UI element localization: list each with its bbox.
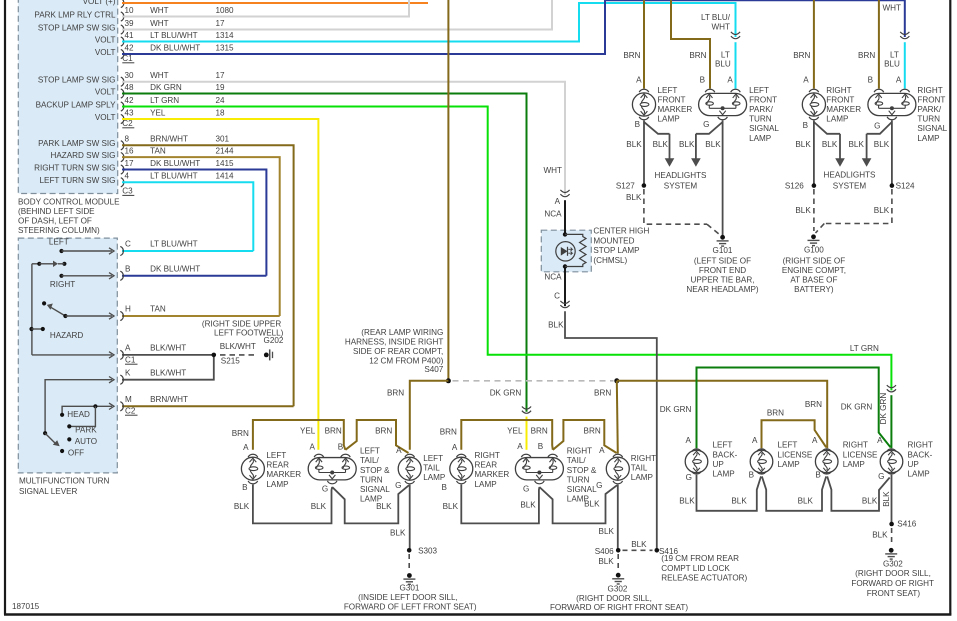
svg-text:VOLT: VOLT xyxy=(95,113,116,122)
svg-text:RIGHT: RIGHT xyxy=(567,447,592,456)
svg-text:VOLT: VOLT xyxy=(95,35,116,44)
svg-text:16: 16 xyxy=(125,147,135,156)
svg-text:SIGNAL: SIGNAL xyxy=(360,485,390,494)
svg-text:LAMP: LAMP xyxy=(266,480,288,489)
svg-text:(RIGHT SIDE UPPER: (RIGHT SIDE UPPER xyxy=(202,320,281,329)
svg-text:LAMP: LAMP xyxy=(475,480,497,489)
svg-text:FRONT END: FRONT END xyxy=(699,266,746,275)
svg-text:UP: UP xyxy=(713,460,724,469)
svg-text:S406: S406 xyxy=(595,547,614,556)
svg-text:S416: S416 xyxy=(897,520,916,529)
svg-text:C2: C2 xyxy=(125,406,136,415)
svg-text:FORWARD OF RIGHT: FORWARD OF RIGHT xyxy=(851,579,934,588)
svg-text:OFF: OFF xyxy=(68,448,84,457)
svg-text:H: H xyxy=(125,305,131,314)
svg-text:RIGHT: RIGHT xyxy=(631,454,656,463)
svg-text:1080: 1080 xyxy=(216,6,235,15)
svg-text:A: A xyxy=(125,344,131,353)
svg-text:TAIL/: TAIL/ xyxy=(567,456,587,465)
svg-text:NEAR HEADLAMP): NEAR HEADLAMP) xyxy=(686,285,759,294)
svg-text:COMPT LID LOCK: COMPT LID LOCK xyxy=(661,564,730,573)
svg-text:FRONT: FRONT xyxy=(917,95,945,104)
svg-text:(LEFT SIDE OF: (LEFT SIDE OF xyxy=(694,256,751,265)
svg-text:A: A xyxy=(727,76,733,85)
svg-text:43: 43 xyxy=(125,108,135,117)
svg-text:TAN: TAN xyxy=(150,305,166,314)
svg-text:SIGNAL LEVER: SIGNAL LEVER xyxy=(19,487,78,496)
svg-text:S215: S215 xyxy=(221,356,240,365)
svg-text:LT BLU/WHT: LT BLU/WHT xyxy=(150,172,198,181)
svg-text:YEL: YEL xyxy=(507,427,523,436)
svg-text:BRN/WHT: BRN/WHT xyxy=(150,395,188,404)
svg-text:TURN: TURN xyxy=(567,475,590,484)
svg-text:LEFT: LEFT xyxy=(713,441,733,450)
svg-text:BRN: BRN xyxy=(375,427,392,436)
svg-text:LT BLU/: LT BLU/ xyxy=(701,13,731,22)
svg-text:C1: C1 xyxy=(122,54,133,63)
svg-text:A: A xyxy=(752,436,758,445)
svg-text:A: A xyxy=(636,76,642,85)
svg-text:PARK LAMP SW SIG: PARK LAMP SW SIG xyxy=(38,139,115,148)
svg-text:HAZARD: HAZARD xyxy=(50,331,84,340)
svg-text:BRN: BRN xyxy=(689,51,706,60)
svg-text:WHT: WHT xyxy=(712,23,731,32)
svg-text:LEFT: LEFT xyxy=(360,447,380,456)
svg-text:STOP LAMP SW SIG: STOP LAMP SW SIG xyxy=(38,23,116,32)
svg-text:C2: C2 xyxy=(122,119,133,128)
svg-text:C: C xyxy=(125,240,131,249)
svg-text:TAN: TAN xyxy=(150,147,166,156)
svg-text:42: 42 xyxy=(125,96,135,105)
svg-text:TURN: TURN xyxy=(749,115,772,124)
svg-text:BLK/WHT: BLK/WHT xyxy=(150,368,186,377)
svg-text:A: A xyxy=(243,443,249,452)
svg-text:STOP LAMP: STOP LAMP xyxy=(593,246,639,255)
svg-text:LEFT: LEFT xyxy=(266,451,286,460)
svg-text:LAMP: LAMP xyxy=(423,473,445,482)
svg-text:TAIL: TAIL xyxy=(631,463,648,472)
svg-text:AUTO: AUTO xyxy=(75,437,97,446)
svg-text:BRN: BRN xyxy=(858,51,875,60)
svg-text:DK GRN: DK GRN xyxy=(879,393,888,425)
svg-text:REAR: REAR xyxy=(266,461,289,470)
svg-text:BLU: BLU xyxy=(715,59,731,68)
svg-text:UPPER TIE BAR,: UPPER TIE BAR, xyxy=(691,276,755,285)
svg-text:BLK: BLK xyxy=(548,321,564,330)
svg-text:BLK: BLK xyxy=(731,496,747,505)
svg-text:BLK: BLK xyxy=(520,501,536,510)
svg-text:BRN: BRN xyxy=(594,388,611,397)
svg-text:LICENSE: LICENSE xyxy=(843,450,878,459)
svg-text:A: A xyxy=(812,436,818,445)
svg-text:18: 18 xyxy=(216,108,226,117)
svg-text:WHT: WHT xyxy=(150,71,169,80)
svg-text:ENGINE COMPT,: ENGINE COMPT, xyxy=(782,266,846,275)
svg-text:8: 8 xyxy=(125,135,130,144)
svg-text:LICENSE: LICENSE xyxy=(778,450,813,459)
svg-text:SIGNAL: SIGNAL xyxy=(749,124,779,133)
svg-text:C1: C1 xyxy=(125,355,136,364)
svg-text:A: A xyxy=(803,76,809,85)
svg-text:SYSTEM: SYSTEM xyxy=(664,181,698,190)
svg-text:BLK: BLK xyxy=(874,206,890,215)
svg-text:MARKER: MARKER xyxy=(475,470,510,479)
svg-text:30: 30 xyxy=(125,71,135,80)
svg-text:LEFT: LEFT xyxy=(658,86,678,95)
svg-text:MARKER: MARKER xyxy=(658,105,693,114)
svg-text:A: A xyxy=(396,446,402,455)
svg-text:LT GRN: LT GRN xyxy=(850,344,879,353)
svg-text:C: C xyxy=(554,292,560,301)
svg-text:LEFT: LEFT xyxy=(49,237,69,246)
svg-text:RIGHT: RIGHT xyxy=(475,451,500,460)
svg-text:BRN: BRN xyxy=(793,51,810,60)
svg-text:LEFT: LEFT xyxy=(749,86,769,95)
svg-text:BRN: BRN xyxy=(232,429,249,438)
svg-text:HAZARD SW SIG: HAZARD SW SIG xyxy=(50,151,115,160)
svg-text:41: 41 xyxy=(125,31,135,40)
svg-text:BRN: BRN xyxy=(805,400,822,409)
svg-text:BLK: BLK xyxy=(679,140,695,149)
svg-text:B: B xyxy=(338,443,343,452)
svg-text:LAMP: LAMP xyxy=(917,134,939,143)
svg-text:MARKER: MARKER xyxy=(826,105,861,114)
svg-text:VOLT (+): VOLT (+) xyxy=(83,0,116,6)
svg-text:BLK/WHT: BLK/WHT xyxy=(150,344,186,353)
svg-text:BRN: BRN xyxy=(387,388,404,397)
svg-text:(BEHIND LEFT SIDE: (BEHIND LEFT SIDE xyxy=(18,207,95,216)
svg-text:S303: S303 xyxy=(418,546,437,555)
svg-text:LEFT TURN SW SIG: LEFT TURN SW SIG xyxy=(40,176,116,185)
svg-text:B: B xyxy=(242,483,247,492)
svg-text:BLK: BLK xyxy=(376,502,392,511)
svg-text:LAMP: LAMP xyxy=(713,469,735,478)
svg-text:STEERING COLUMN): STEERING COLUMN) xyxy=(18,226,100,235)
svg-text:LAMP: LAMP xyxy=(778,460,800,469)
svg-text:PARK/: PARK/ xyxy=(917,105,942,114)
svg-text:REAR: REAR xyxy=(475,461,498,470)
svg-text:(INSIDE LEFT DOOR SILL,: (INSIDE LEFT DOOR SILL, xyxy=(358,593,458,602)
svg-text:BLK: BLK xyxy=(679,496,695,505)
svg-text:FRONT: FRONT xyxy=(749,95,777,104)
svg-text:G100: G100 xyxy=(804,245,824,254)
svg-text:BRN/WHT: BRN/WHT xyxy=(150,135,188,144)
svg-text:MULTIFUNCTION TURN: MULTIFUNCTION TURN xyxy=(19,477,110,486)
svg-text:RELEASE ACTUATOR): RELEASE ACTUATOR) xyxy=(661,573,747,582)
svg-text:B: B xyxy=(700,76,705,85)
svg-text:FORWARD OF LEFT FRONT SEAT): FORWARD OF LEFT FRONT SEAT) xyxy=(344,603,477,612)
svg-text:S127: S127 xyxy=(616,181,635,190)
svg-text:BRN: BRN xyxy=(325,427,342,436)
svg-text:DK GRN: DK GRN xyxy=(150,83,182,92)
svg-text:B: B xyxy=(441,483,446,492)
svg-text:DK BLU/WHT: DK BLU/WHT xyxy=(150,43,200,52)
svg-text:LAMP: LAMP xyxy=(749,134,771,143)
svg-text:BLK: BLK xyxy=(705,140,721,149)
svg-text:1415: 1415 xyxy=(216,159,235,168)
svg-text:17: 17 xyxy=(216,19,226,28)
svg-text:G301: G301 xyxy=(400,584,420,593)
svg-text:RIGHT TURN SW SIG: RIGHT TURN SW SIG xyxy=(34,163,115,172)
svg-text:STOP LAMP SW SIG: STOP LAMP SW SIG xyxy=(38,76,116,85)
svg-text:BLK: BLK xyxy=(795,206,811,215)
svg-text:NCA: NCA xyxy=(544,210,562,219)
svg-text:(CHMSL): (CHMSL) xyxy=(593,256,627,265)
svg-text:LAMP: LAMP xyxy=(843,460,865,469)
svg-text:42: 42 xyxy=(125,43,135,52)
svg-text:M: M xyxy=(125,395,132,404)
svg-text:BLK/WHT: BLK/WHT xyxy=(220,342,256,351)
svg-text:19: 19 xyxy=(216,83,226,92)
svg-text:MARKER: MARKER xyxy=(266,470,301,479)
svg-text:VOLT: VOLT xyxy=(95,87,116,96)
svg-text:39: 39 xyxy=(125,19,135,28)
svg-text:G: G xyxy=(596,481,602,490)
svg-text:OF DASH, LEFT OF: OF DASH, LEFT OF xyxy=(18,217,92,226)
svg-text:BACK-: BACK- xyxy=(713,450,738,459)
svg-text:G202: G202 xyxy=(264,336,284,345)
svg-text:BLK: BLK xyxy=(795,140,811,149)
svg-text:LAMP: LAMP xyxy=(826,115,848,124)
svg-text:(RIGHT DOOR SILL,: (RIGHT DOOR SILL, xyxy=(855,569,931,578)
svg-text:BLK: BLK xyxy=(631,540,647,549)
svg-text:BACK-: BACK- xyxy=(908,450,933,459)
svg-text:187015: 187015 xyxy=(12,602,40,611)
svg-text:G302: G302 xyxy=(608,585,628,594)
svg-text:BLK: BLK xyxy=(626,140,642,149)
svg-text:G: G xyxy=(686,473,692,482)
svg-text:S407: S407 xyxy=(424,365,443,374)
svg-text:B: B xyxy=(125,264,130,273)
svg-text:LT BLU/WHT: LT BLU/WHT xyxy=(150,240,198,249)
svg-text:BLK: BLK xyxy=(443,502,459,511)
svg-text:BLK: BLK xyxy=(822,140,838,149)
svg-text:C3: C3 xyxy=(122,187,133,196)
svg-text:B: B xyxy=(868,76,873,85)
svg-text:FRONT: FRONT xyxy=(826,95,854,104)
svg-text:DK BLU/WHT: DK BLU/WHT xyxy=(150,264,200,273)
svg-text:VOLT: VOLT xyxy=(95,48,116,57)
svg-text:RIGHT: RIGHT xyxy=(826,86,851,95)
svg-text:TAIL: TAIL xyxy=(423,463,440,472)
svg-text:TURN: TURN xyxy=(917,115,940,124)
svg-text:17: 17 xyxy=(216,71,226,80)
svg-text:4: 4 xyxy=(125,172,130,181)
svg-text:BLK: BLK xyxy=(653,140,669,149)
svg-text:B: B xyxy=(803,121,808,130)
svg-text:BLK: BLK xyxy=(390,528,406,537)
svg-text:DK GRN: DK GRN xyxy=(660,405,692,414)
svg-text:G: G xyxy=(874,122,880,131)
svg-text:(19 CM FROM REAR: (19 CM FROM REAR xyxy=(661,554,739,563)
svg-text:TURN: TURN xyxy=(360,475,383,484)
svg-text:SIGNAL: SIGNAL xyxy=(567,485,597,494)
svg-text:1314: 1314 xyxy=(216,31,235,40)
svg-text:LAMP: LAMP xyxy=(908,469,930,478)
svg-text:SIGNAL: SIGNAL xyxy=(917,124,947,133)
svg-text:BLU: BLU xyxy=(884,59,900,68)
svg-text:RIGHT: RIGHT xyxy=(908,441,933,450)
svg-text:B: B xyxy=(538,442,543,451)
svg-text:A: A xyxy=(309,443,315,452)
svg-text:RIGHT: RIGHT xyxy=(50,280,75,289)
svg-text:48: 48 xyxy=(125,83,135,92)
svg-text:BLK: BLK xyxy=(849,140,865,149)
svg-text:G: G xyxy=(395,481,401,490)
svg-text:BRN: BRN xyxy=(440,427,457,436)
svg-text:LEFT: LEFT xyxy=(778,441,798,450)
svg-text:G302: G302 xyxy=(883,559,903,568)
svg-text:BLK: BLK xyxy=(872,531,888,540)
svg-text:1414: 1414 xyxy=(216,172,235,181)
svg-text:1315: 1315 xyxy=(216,43,235,52)
svg-text:B: B xyxy=(635,120,640,129)
svg-text:A: A xyxy=(517,442,523,451)
svg-text:G101: G101 xyxy=(713,246,733,255)
svg-text:S126: S126 xyxy=(785,181,804,190)
svg-text:PARK/: PARK/ xyxy=(749,105,774,114)
svg-text:WHT: WHT xyxy=(883,3,902,12)
svg-text:WHT: WHT xyxy=(150,19,169,28)
svg-text:SIDE OF REAR COMPT,: SIDE OF REAR COMPT, xyxy=(353,347,443,356)
svg-text:DK GRN: DK GRN xyxy=(490,388,522,397)
svg-text:BRN: BRN xyxy=(531,427,548,436)
svg-text:MOUNTED: MOUNTED xyxy=(593,236,634,245)
svg-text:BATTERY): BATTERY) xyxy=(794,285,834,294)
svg-text:K: K xyxy=(125,368,131,377)
svg-text:2144: 2144 xyxy=(216,147,235,156)
svg-text:YEL: YEL xyxy=(150,108,166,117)
svg-text:BLK: BLK xyxy=(862,496,878,505)
svg-text:AT BASE OF: AT BASE OF xyxy=(790,276,837,285)
svg-text:UP: UP xyxy=(908,460,919,469)
svg-text:BACKUP LAMP SPLY: BACKUP LAMP SPLY xyxy=(36,100,117,109)
svg-text:WHT: WHT xyxy=(150,6,169,15)
svg-text:BLK: BLK xyxy=(599,527,615,536)
svg-text:(RIGHT DOOR SILL,: (RIGHT DOOR SILL, xyxy=(576,594,652,603)
svg-text:BRN: BRN xyxy=(584,427,601,436)
svg-text:HEADLIGHTS: HEADLIGHTS xyxy=(655,171,708,180)
svg-text:B: B xyxy=(749,471,754,480)
svg-text:BLK: BLK xyxy=(598,557,614,566)
svg-text:LEFT: LEFT xyxy=(423,454,443,463)
svg-text:BRN: BRN xyxy=(623,51,640,60)
svg-text:STOP &: STOP & xyxy=(567,466,597,475)
svg-text:A: A xyxy=(877,436,883,445)
svg-text:BODY CONTROL MODULE: BODY CONTROL MODULE xyxy=(18,197,120,206)
svg-text:LAMP: LAMP xyxy=(658,115,680,124)
svg-text:PARK LMP RLY CTRL: PARK LMP RLY CTRL xyxy=(34,10,116,19)
svg-text:DK BLU/WHT: DK BLU/WHT xyxy=(150,159,200,168)
svg-text:A: A xyxy=(685,436,691,445)
svg-text:CENTER HIGH: CENTER HIGH xyxy=(593,227,649,236)
svg-text:G: G xyxy=(878,472,884,481)
svg-text:LT BLU/WHT: LT BLU/WHT xyxy=(150,31,198,40)
svg-text:BLK: BLK xyxy=(882,491,891,507)
svg-text:BLK: BLK xyxy=(798,496,814,505)
svg-text:BLK: BLK xyxy=(626,193,642,202)
svg-text:A: A xyxy=(599,446,605,455)
svg-text:(RIGHT SIDE OF: (RIGHT SIDE OF xyxy=(783,256,846,265)
svg-text:NCA: NCA xyxy=(544,272,562,281)
svg-text:A: A xyxy=(555,197,561,206)
svg-text:TAIL/: TAIL/ xyxy=(360,456,380,465)
svg-text:G: G xyxy=(322,484,328,493)
svg-text:G: G xyxy=(703,120,709,129)
svg-text:(REAR LAMP WIRING: (REAR LAMP WIRING xyxy=(361,328,443,337)
svg-text:DK GRN: DK GRN xyxy=(841,402,873,411)
svg-text:G: G xyxy=(523,484,529,493)
svg-text:HARNESS, INSIDE RIGHT: HARNESS, INSIDE RIGHT xyxy=(345,337,443,346)
svg-text:HEADLIGHTS: HEADLIGHTS xyxy=(824,171,877,180)
svg-text:LAMP: LAMP xyxy=(631,473,653,482)
svg-text:YEL: YEL xyxy=(300,427,316,436)
svg-text:BLK: BLK xyxy=(234,502,250,511)
svg-text:RIGHT: RIGHT xyxy=(843,441,868,450)
svg-text:A: A xyxy=(452,443,458,452)
svg-text:BLK: BLK xyxy=(584,500,600,509)
svg-text:BRN: BRN xyxy=(767,409,784,418)
svg-text:WHT: WHT xyxy=(544,166,563,175)
svg-text:BLK: BLK xyxy=(874,140,890,149)
svg-text:STOP &: STOP & xyxy=(360,466,390,475)
svg-text:A: A xyxy=(896,76,902,85)
svg-text:FORWARD OF RIGHT FRONT SEAT): FORWARD OF RIGHT FRONT SEAT) xyxy=(550,603,688,612)
svg-text:17: 17 xyxy=(125,159,135,168)
svg-text:RIGHT: RIGHT xyxy=(917,86,942,95)
svg-text:BLK: BLK xyxy=(311,502,327,511)
svg-text:24: 24 xyxy=(216,96,226,105)
svg-text:LT GRN: LT GRN xyxy=(150,96,179,105)
svg-text:S124: S124 xyxy=(896,181,915,190)
svg-text:10: 10 xyxy=(125,6,135,15)
svg-text:B: B xyxy=(815,471,820,480)
svg-text:SYSTEM: SYSTEM xyxy=(833,181,867,190)
svg-text:HEAD: HEAD xyxy=(67,410,90,419)
svg-text:301: 301 xyxy=(216,135,230,144)
svg-text:FRONT: FRONT xyxy=(658,95,686,104)
svg-text:FRONT SEAT): FRONT SEAT) xyxy=(867,589,921,598)
